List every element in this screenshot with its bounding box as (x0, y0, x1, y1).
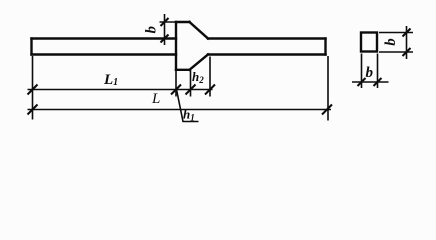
svg-text:b: b (383, 38, 399, 45)
svg-text:h2: h2 (192, 69, 204, 85)
svg-text:b: b (143, 26, 159, 33)
svg-text:b: b (366, 65, 374, 81)
svg-text:L: L (151, 91, 160, 107)
svg-text:L1: L1 (103, 72, 118, 88)
